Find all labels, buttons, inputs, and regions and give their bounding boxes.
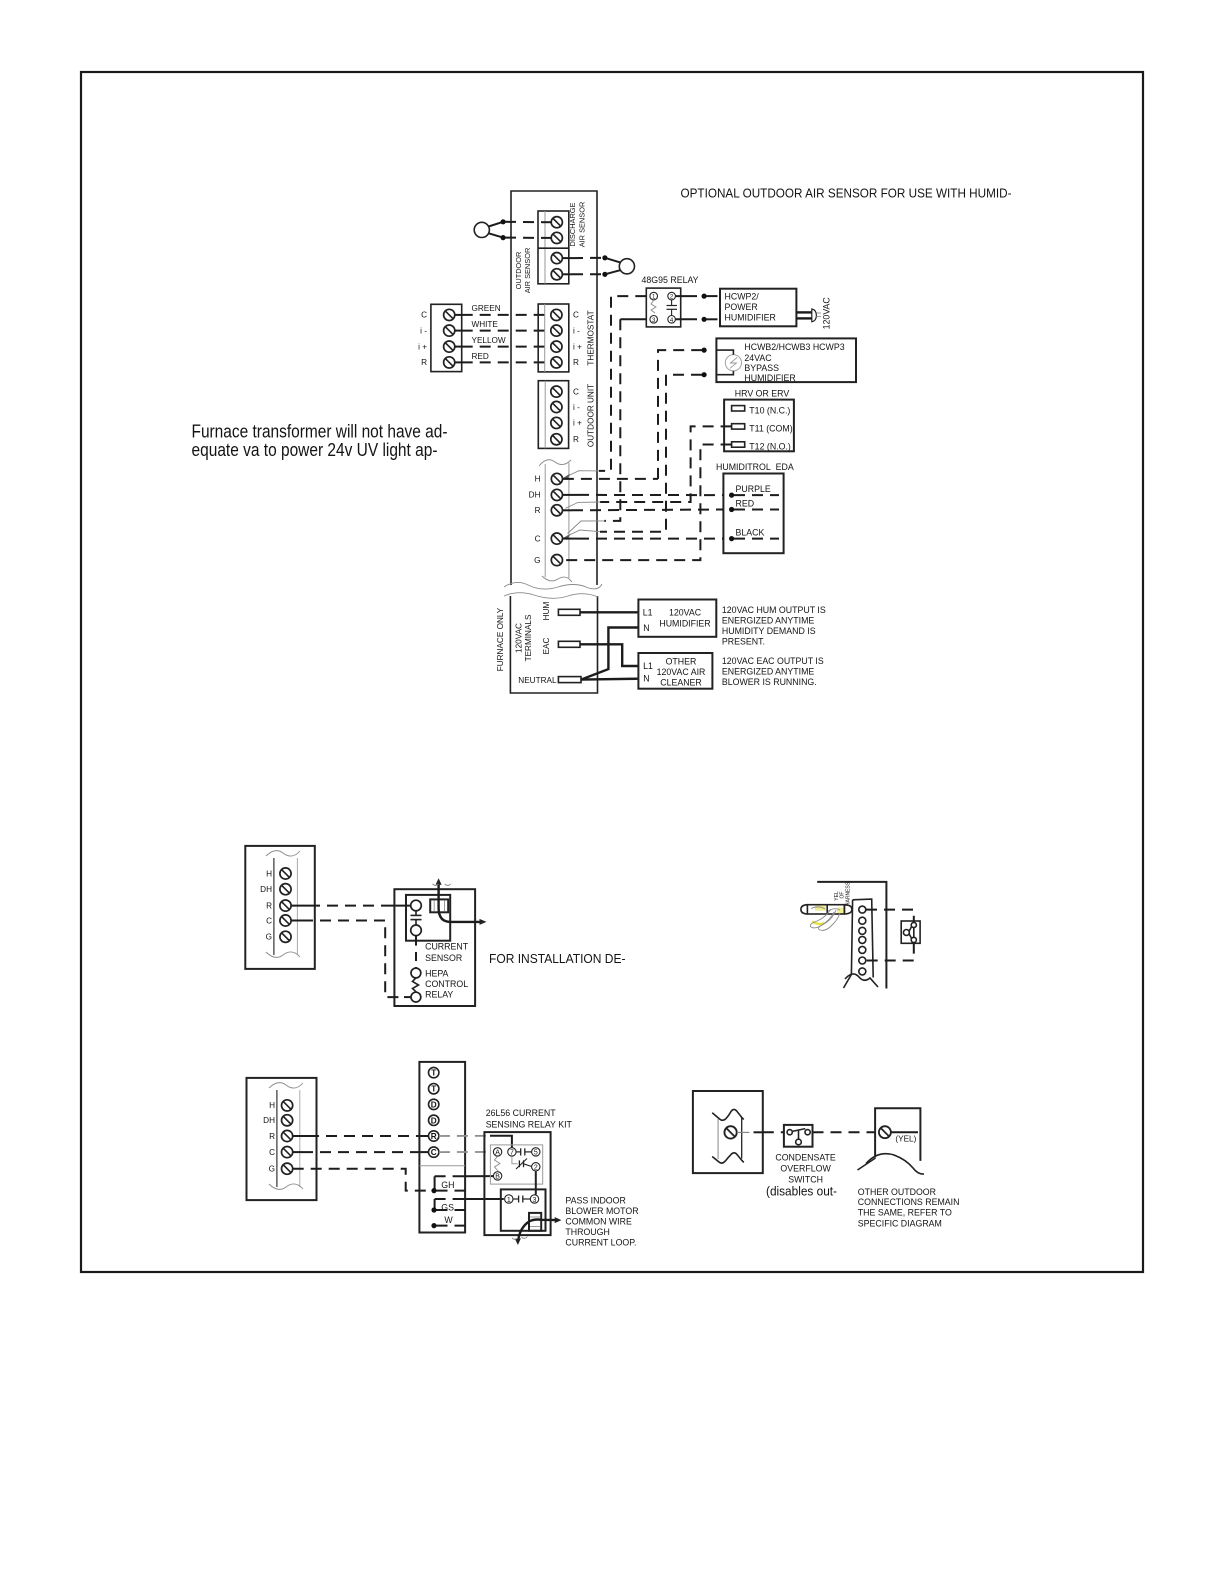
svg-text:TERMINALS: TERMINALS <box>524 614 533 661</box>
svg-text:COMMON WIRE: COMMON WIRE <box>565 1216 632 1226</box>
svg-text:WHITE: WHITE <box>472 320 499 329</box>
svg-text:BLOWER IS RUNNING.: BLOWER IS RUNNING. <box>722 677 817 687</box>
svg-text:i +: i + <box>573 342 582 351</box>
svg-text:R: R <box>269 1132 275 1141</box>
svg-text:RELAY: RELAY <box>425 990 453 1000</box>
svg-text:NEUTRAL: NEUTRAL <box>518 676 557 685</box>
svg-text:HCWP2/: HCWP2/ <box>725 292 760 302</box>
svg-text:HUMIDITROL EDA: HUMIDITROL EDA <box>716 462 794 472</box>
svg-text:HUMIDIFIER: HUMIDIFIER <box>725 313 776 323</box>
svg-text:120VAC HUM OUTPUT IS: 120VAC HUM OUTPUT IS <box>722 605 826 615</box>
svg-text:HUM: HUM <box>542 602 551 621</box>
svg-text:G: G <box>269 1165 275 1174</box>
svg-text:OUTDOOR UNIT: OUTDOOR UNIT <box>587 384 596 447</box>
svg-text:H: H <box>269 1101 275 1110</box>
svg-text:L1: L1 <box>643 661 653 671</box>
svg-text:HUMIDIFIER: HUMIDIFIER <box>744 373 795 383</box>
svg-text:R: R <box>535 506 541 515</box>
svg-text:EAC: EAC <box>542 637 551 654</box>
svg-text:N: N <box>643 674 649 684</box>
svg-text:equate va to power 24v UV ligh: equate va to power 24v UV light ap- <box>192 439 438 460</box>
svg-text:H: H <box>535 475 541 484</box>
svg-text:CLEANER: CLEANER <box>660 678 702 688</box>
svg-text:PRESENT.: PRESENT. <box>722 636 765 646</box>
svg-text:i +: i + <box>418 342 427 351</box>
svg-text:SENSING RELAY KIT: SENSING RELAY KIT <box>486 1120 573 1130</box>
svg-text:48G95 RELAY: 48G95 RELAY <box>642 275 699 285</box>
svg-text:120VAC AIR: 120VAC AIR <box>657 667 706 677</box>
svg-text:HUMIDIFIER: HUMIDIFIER <box>659 618 710 628</box>
svg-text:HEPA: HEPA <box>425 969 448 979</box>
svg-text:HARNESS: HARNESS <box>846 881 852 906</box>
svg-text:120VAC EAC OUTPUT IS: 120VAC EAC OUTPUT IS <box>722 656 824 666</box>
svg-text:C: C <box>269 1148 275 1157</box>
svg-text:DISCHARGE: DISCHARGE <box>568 202 577 246</box>
svg-text:CONNECTIONS REMAIN: CONNECTIONS REMAIN <box>858 1197 960 1207</box>
svg-text:PURPLE: PURPLE <box>736 484 771 494</box>
svg-text:R: R <box>421 358 427 367</box>
svg-text:OTHER: OTHER <box>666 656 697 666</box>
svg-text:7: 7 <box>510 1150 514 1157</box>
svg-text:26L56 CURRENT: 26L56 CURRENT <box>486 1108 557 1118</box>
svg-text:(disables out-: (disables out- <box>766 1184 837 1199</box>
svg-text:B: B <box>495 1174 500 1181</box>
svg-text:C: C <box>573 387 579 396</box>
svg-text:T10 (N.C.): T10 (N.C.) <box>749 406 790 416</box>
svg-text:3: 3 <box>533 1197 537 1204</box>
svg-text:THROUGH: THROUGH <box>565 1227 609 1237</box>
svg-text:C: C <box>266 916 272 925</box>
svg-text:OUTDOOR: OUTDOOR <box>514 252 523 290</box>
svg-text:CONDENSATE: CONDENSATE <box>775 1152 836 1162</box>
svg-text:FOR INSTALLATION DE-: FOR INSTALLATION DE- <box>489 952 626 966</box>
svg-text:THE SAME, REFER TO: THE SAME, REFER TO <box>858 1208 952 1218</box>
svg-text:C: C <box>535 534 541 543</box>
svg-text:W: W <box>444 1215 453 1225</box>
svg-text:C: C <box>573 311 579 320</box>
svg-text:BYPASS: BYPASS <box>744 363 779 373</box>
svg-text:(YEL): (YEL) <box>895 1135 916 1144</box>
svg-text:HCWB2/HCWB3 HCWP3: HCWB2/HCWB3 HCWP3 <box>744 342 844 352</box>
svg-text:CURRENT: CURRENT <box>425 942 469 952</box>
svg-text:FURNACE ONLY: FURNACE ONLY <box>496 607 505 671</box>
svg-text:THERMOSTAT: THERMOSTAT <box>587 310 596 365</box>
svg-text:T11 (COM): T11 (COM) <box>749 424 792 434</box>
svg-text:D: D <box>431 1100 437 1109</box>
svg-text:SPECIFIC DIAGRAM: SPECIFIC DIAGRAM <box>858 1219 942 1229</box>
svg-text:R: R <box>266 901 272 910</box>
svg-text:2: 2 <box>534 1165 538 1172</box>
svg-text:L1: L1 <box>643 608 653 618</box>
svg-text:ENERGIZED ANYTIME: ENERGIZED ANYTIME <box>722 615 815 625</box>
svg-text:ENERGIZED ANYTIME: ENERGIZED ANYTIME <box>722 667 815 677</box>
svg-text:i +: i + <box>573 419 582 428</box>
svg-text:T: T <box>431 1085 436 1094</box>
svg-text:GH: GH <box>441 1180 454 1190</box>
svg-text:H: H <box>266 869 272 878</box>
svg-text:OVERFLOW: OVERFLOW <box>780 1163 831 1173</box>
svg-text:G: G <box>534 556 540 565</box>
svg-text:DH: DH <box>529 491 541 500</box>
svg-text:C: C <box>421 311 427 320</box>
svg-text:BLACK: BLACK <box>736 528 765 538</box>
svg-text:120VAC: 120VAC <box>822 297 832 330</box>
svg-text:T: T <box>431 1069 436 1078</box>
svg-text:BLOWER MOTOR: BLOWER MOTOR <box>565 1206 638 1216</box>
svg-text:T12 (N.O.): T12 (N.O.) <box>749 442 791 452</box>
svg-text:A: A <box>495 1150 500 1157</box>
svg-text:120VAC: 120VAC <box>669 608 702 618</box>
svg-text:24VAC: 24VAC <box>744 353 772 363</box>
svg-text:R: R <box>573 358 579 367</box>
svg-text:HUMIDITY DEMAND IS: HUMIDITY DEMAND IS <box>722 626 816 636</box>
svg-text:RED: RED <box>472 352 489 361</box>
svg-text:DH: DH <box>260 885 272 894</box>
svg-text:AIR SENSOR: AIR SENSOR <box>577 202 586 248</box>
svg-text:i -: i - <box>420 326 427 335</box>
svg-text:i -: i - <box>573 403 580 412</box>
svg-text:HRV OR ERV: HRV OR ERV <box>735 389 790 399</box>
svg-text:OPTIONAL OUTDOOR AIR SENSOR FO: OPTIONAL OUTDOOR AIR SENSOR FOR USE WITH… <box>681 187 1012 201</box>
svg-text:D: D <box>431 1116 437 1125</box>
svg-text:PASS INDOOR: PASS INDOOR <box>565 1195 625 1205</box>
svg-text:AIR SENSOR: AIR SENSOR <box>523 248 532 294</box>
svg-text:i -: i - <box>573 326 580 335</box>
svg-text:120VAC: 120VAC <box>515 623 524 653</box>
svg-text:SENSOR: SENSOR <box>425 953 462 963</box>
svg-text:N: N <box>643 623 649 633</box>
svg-text:POWER: POWER <box>725 302 758 312</box>
svg-text:G: G <box>266 933 272 942</box>
svg-text:5: 5 <box>534 1150 538 1157</box>
svg-text:CURRENT LOOP.: CURRENT LOOP. <box>565 1237 636 1247</box>
svg-text:R: R <box>573 435 579 444</box>
svg-text:CONTROL: CONTROL <box>425 979 468 989</box>
svg-text:1: 1 <box>507 1197 511 1204</box>
svg-text:R: R <box>431 1132 437 1141</box>
svg-text:OTHER OUTDOOR: OTHER OUTDOOR <box>858 1187 936 1197</box>
svg-text:RED: RED <box>736 498 755 508</box>
svg-text:YELLOW: YELLOW <box>472 336 506 345</box>
svg-text:C: C <box>431 1148 437 1157</box>
svg-text:GREEN: GREEN <box>472 304 501 313</box>
svg-text:DH: DH <box>263 1116 275 1125</box>
